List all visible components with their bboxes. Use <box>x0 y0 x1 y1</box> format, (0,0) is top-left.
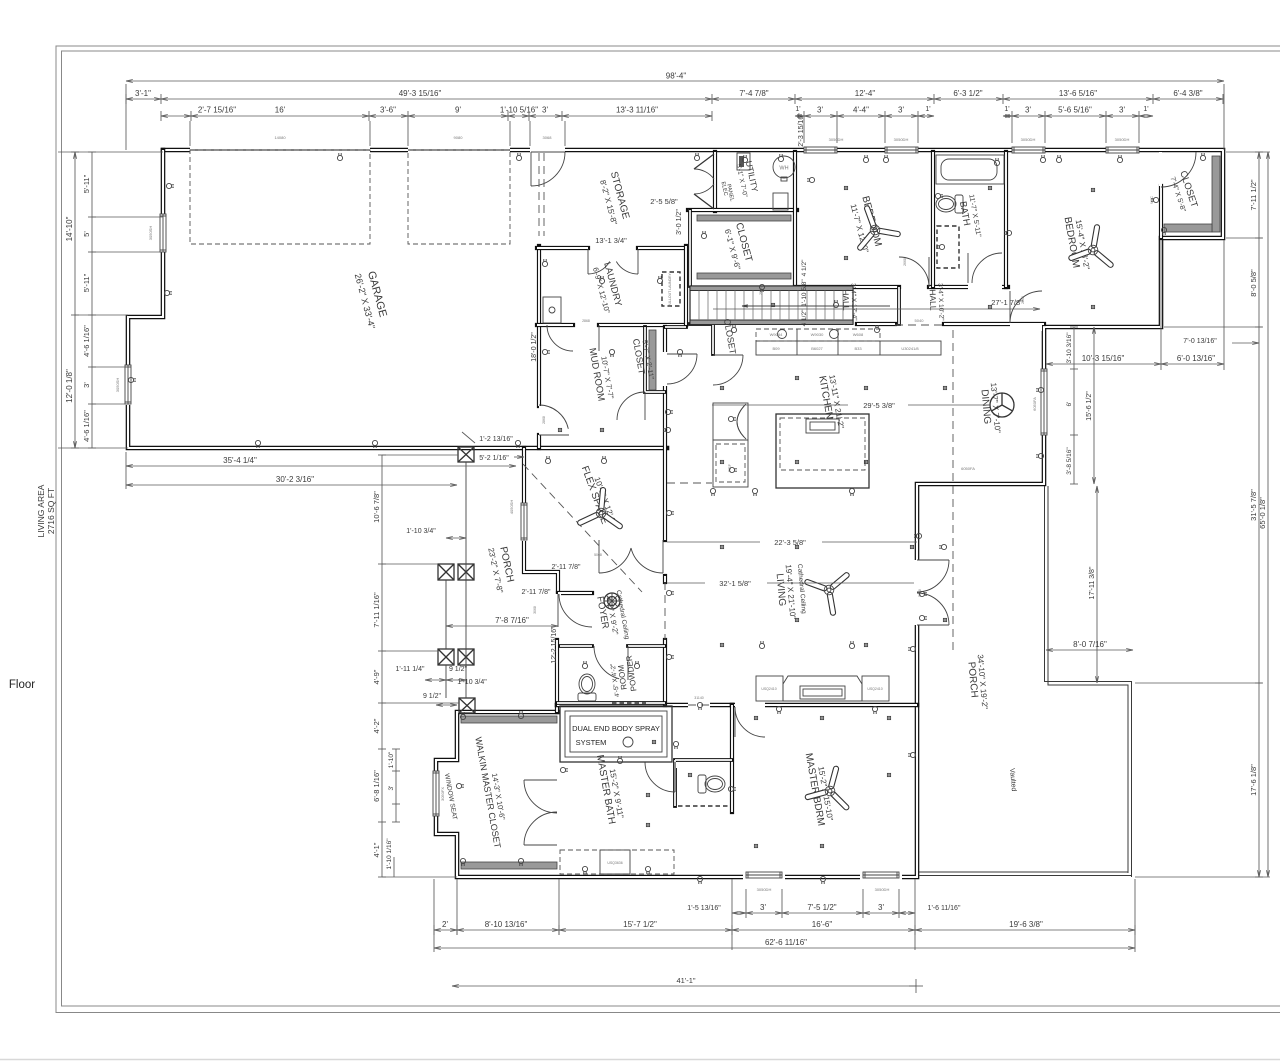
window 3050DH master b <box>863 872 899 878</box>
master closet door opening <box>553 780 561 845</box>
door kitchen to mud room <box>667 354 697 384</box>
nightstand left <box>756 676 783 701</box>
svg-text:3'-8 5/16": 3'-8 5/16" <box>1066 447 1073 475</box>
ceiling fixture squares <box>720 386 723 389</box>
garage west window opening <box>160 214 167 252</box>
bedroom3 window1 opening <box>1012 147 1045 154</box>
svg-text:62'-6 11/16": 62'-6 11/16" <box>765 938 807 947</box>
porch column B2 <box>458 564 474 580</box>
right porch edge <box>1045 486 1132 877</box>
powder east wall <box>663 640 667 705</box>
mud closet door <box>617 392 645 420</box>
svg-text:1': 1' <box>795 106 800 113</box>
mud closet / flex east wall <box>663 327 667 540</box>
garage door opening 1 <box>190 146 370 154</box>
svg-text:1'-5 13/16": 1'-5 13/16" <box>687 905 721 912</box>
svg-text:LIVING AREA: LIVING AREA <box>36 484 46 537</box>
master bdrm door <box>735 707 765 737</box>
bath vanity dashed <box>937 226 959 268</box>
svg-text:14'-10": 14'-10" <box>65 216 74 241</box>
svg-text:22'-3 5/8": 22'-3 5/8" <box>774 538 806 547</box>
laundry swing doors <box>588 262 610 275</box>
left lower dim chain <box>381 455 383 877</box>
svg-text:B09: B09 <box>772 346 780 351</box>
svg-text:10'-3 15/16": 10'-3 15/16" <box>1082 354 1125 363</box>
svg-text:13'-1 3/4": 13'-1 3/4" <box>595 236 627 245</box>
master closet double door b <box>524 812 557 845</box>
storage door opening <box>530 147 565 154</box>
svg-text:65'-0 1/8": 65'-0 1/8" <box>1258 497 1267 529</box>
dim 22-3 5/8 <box>667 541 760 543</box>
window seat window opening <box>432 771 440 816</box>
svg-text:3050FX: 3050FX <box>440 787 445 801</box>
elec panel <box>737 153 750 170</box>
living west wall upper <box>663 576 667 582</box>
wc door <box>645 762 675 792</box>
laundry south wall <box>537 323 686 327</box>
svg-text:15'-6 1/2": 15'-6 1/2" <box>1086 391 1093 421</box>
mud closet shelf <box>649 330 656 390</box>
closet door opening right <box>1159 152 1162 186</box>
svg-text:17'-6 1/8": 17'-6 1/8" <box>1249 764 1258 796</box>
bedroom3 closet shelf vertical <box>1212 156 1220 232</box>
porch column C1 <box>438 649 454 665</box>
svg-text:4 1/2": 4 1/2" <box>801 309 808 326</box>
mud closet walls <box>645 327 665 392</box>
bath toilet <box>936 195 963 213</box>
svg-text:31140: 31140 <box>694 696 704 700</box>
laundry sink <box>543 297 561 323</box>
svg-text:16'-6": 16'-6" <box>812 920 833 929</box>
svg-text:2668: 2668 <box>903 258 907 266</box>
master north wall <box>732 703 917 708</box>
bedroom2/hall south wall <box>795 285 1008 289</box>
bedroom2 window1 opening <box>804 147 837 154</box>
dashed wc opening <box>678 805 728 807</box>
svg-text:6'-3 1/2": 6'-3 1/2" <box>953 89 982 98</box>
master closet double door a <box>524 780 557 813</box>
svg-text:5': 5' <box>82 231 91 237</box>
garage door 9ft dashed <box>408 150 510 244</box>
laundry east / closet west wall <box>684 246 688 325</box>
window 3050DH bedroom2 b <box>885 147 918 153</box>
mudroom door <box>539 405 568 429</box>
svg-text:3': 3' <box>542 106 548 115</box>
svg-text:29'-5 3/8": 29'-5 3/8" <box>863 401 895 410</box>
svg-text:8'-0 7/16": 8'-0 7/16" <box>1073 640 1107 649</box>
svg-text:1'-10 5/16": 1'-10 5/16" <box>500 106 538 115</box>
powder west wall <box>555 640 559 712</box>
dim row3 top <box>161 115 191 117</box>
foyer entry stub wall <box>558 591 592 595</box>
svg-text:B6027: B6027 <box>811 346 823 351</box>
storage door <box>531 152 565 186</box>
svg-text:19'-6 3/8": 19'-6 3/8" <box>1009 920 1043 929</box>
svg-text:3050SH: 3050SH <box>148 226 153 241</box>
bedroom2 window2 opening <box>885 147 918 154</box>
svg-text:3': 3' <box>898 106 904 115</box>
left dims garage <box>74 152 76 448</box>
living porch double door a <box>917 560 949 592</box>
porch column C2 <box>458 649 474 665</box>
svg-text:30'-2 3/16": 30'-2 3/16" <box>276 475 314 484</box>
svg-text:3'-4" X 10'-2": 3'-4" X 10'-2" <box>936 283 944 321</box>
svg-text:6'-4 3/8": 6'-4 3/8" <box>1173 89 1202 98</box>
master south window1 opening <box>743 873 785 881</box>
svg-text:USQ2410: USQ2410 <box>761 687 776 691</box>
svg-text:3': 3' <box>388 786 395 791</box>
svg-text:1': 1' <box>1143 106 1148 113</box>
svg-text:2716 SQ FT: 2716 SQ FT <box>46 488 56 534</box>
dining chandelier <box>990 393 1014 417</box>
ceiling fan master <box>808 769 847 808</box>
WC walls <box>675 760 732 806</box>
garage door 16ft dashed <box>190 150 370 244</box>
svg-text:PULLOUT LAUNDRY: PULLOUT LAUNDRY <box>668 272 672 306</box>
right dim chain <box>1258 152 1260 877</box>
window 3050DH master a <box>746 872 782 878</box>
svg-text:17'-11 3/8": 17'-11 3/8" <box>1089 566 1096 599</box>
bath tub <box>936 155 1004 184</box>
dashed cased opening master <box>688 704 710 706</box>
svg-text:7'-8 7/16": 7'-8 7/16" <box>495 616 529 625</box>
svg-text:1'-10 1/16": 1'-10 1/16" <box>386 838 393 870</box>
master bdrm door opening <box>735 701 765 709</box>
dim 98-4 overall <box>126 80 1224 82</box>
svg-text:31'-5 7/8": 31'-5 7/8" <box>1249 489 1258 521</box>
window 3050DH bedroom2 a <box>804 147 837 153</box>
dashed ceiling break living <box>952 330 954 655</box>
wc toilet <box>698 775 725 793</box>
svg-text:3'-1": 3'-1" <box>135 89 151 98</box>
svg-text:U30241/8: U30241/8 <box>901 346 919 351</box>
svg-text:SYSTEM: SYSTEM <box>576 738 607 747</box>
bedroom2 closet shelves <box>697 215 791 221</box>
kitchen pantry cabinets <box>713 403 748 440</box>
svg-text:6050FA: 6050FA <box>1032 397 1037 411</box>
svg-text:41'-1": 41'-1" <box>676 976 695 985</box>
svg-text:10'-6 7/8": 10'-6 7/8" <box>372 491 381 523</box>
outlet symbols <box>337 153 342 161</box>
svg-text:3050DH: 3050DH <box>875 887 890 892</box>
svg-text:4'-6 1/16": 4'-6 1/16" <box>82 325 91 357</box>
laundry door <box>547 325 573 351</box>
svg-text:3'-6": 3'-6" <box>380 106 396 115</box>
svg-text:W608: W608 <box>853 332 864 337</box>
svg-text:5'-2 1/16": 5'-2 1/16" <box>479 455 509 462</box>
svg-text:2'-11 7/8": 2'-11 7/8" <box>552 564 582 571</box>
svg-text:49'-3 15/16": 49'-3 15/16" <box>399 89 442 98</box>
master west corridor wall <box>730 705 734 812</box>
powder south wall <box>557 701 665 705</box>
porch column D <box>459 698 475 713</box>
flex double door a <box>599 548 631 573</box>
master south window2 opening <box>860 873 902 881</box>
svg-text:5040: 5040 <box>915 318 925 323</box>
bottom row 2 <box>434 929 457 931</box>
foyer chandelier <box>604 593 620 609</box>
svg-text:9 1/2": 9 1/2" <box>423 693 442 700</box>
kitchen upper cabinets <box>756 329 880 341</box>
svg-text:3050DH: 3050DH <box>757 887 772 892</box>
svg-text:DUAL END BODY SPRAY: DUAL END BODY SPRAY <box>572 724 660 733</box>
svg-text:5'-11": 5'-11" <box>82 174 91 193</box>
window 3050DH bedroom3 a <box>1012 147 1045 153</box>
svg-text:3'-0 1/2": 3'-0 1/2" <box>676 209 683 235</box>
bedroom2 closet west wall <box>688 210 692 286</box>
svg-text:4'-9": 4'-9" <box>372 669 381 684</box>
svg-text:6050FA: 6050FA <box>961 466 975 471</box>
powder door <box>594 646 619 679</box>
master closet shelves top <box>461 716 557 723</box>
svg-text:12'-4": 12'-4" <box>855 89 876 98</box>
utility bifold door lower <box>694 194 714 209</box>
foyer entry door <box>559 594 592 627</box>
dim 29-5 3/8 kitchen <box>712 404 848 406</box>
dining window opening <box>1040 369 1048 435</box>
bath east wall <box>1004 152 1008 287</box>
svg-text:3': 3' <box>82 382 91 388</box>
flex double door b <box>631 548 663 573</box>
svg-text:18'-0 1/2": 18'-0 1/2" <box>531 332 538 362</box>
svg-text:5068: 5068 <box>594 553 602 557</box>
bedroom3 door opening <box>1010 323 1042 331</box>
laundry north wall <box>537 246 686 250</box>
svg-text:6'-0 13/16": 6'-0 13/16" <box>1177 354 1215 363</box>
svg-text:Floor: Floor <box>9 679 35 691</box>
svg-text:2'-11 7/8": 2'-11 7/8" <box>522 589 552 596</box>
dashed storage line <box>538 153 540 236</box>
master hall cased opening <box>688 701 710 709</box>
powder toilet <box>578 674 596 701</box>
bath door <box>972 253 1002 283</box>
svg-text:1'-2 13/16": 1'-2 13/16" <box>479 436 513 443</box>
svg-text:12'-0 1/8": 12'-0 1/8" <box>65 369 74 403</box>
svg-text:15'-7 1/2": 15'-7 1/2" <box>623 920 657 929</box>
svg-text:3068: 3068 <box>533 606 537 614</box>
svg-text:3068: 3068 <box>543 135 553 140</box>
water heater <box>773 156 795 178</box>
stairs <box>690 286 853 324</box>
bedroom3 closet door <box>1161 152 1196 187</box>
window 6050FA dining <box>1041 369 1047 435</box>
svg-text:4'-2": 4'-2" <box>372 718 381 733</box>
living porch double door b <box>917 593 949 625</box>
hall closet door <box>713 355 743 385</box>
svg-text:2868: 2868 <box>582 319 590 323</box>
svg-text:3050SH: 3050SH <box>115 378 120 393</box>
page bottom edge <box>0 1059 1280 1061</box>
svg-text:1': 1' <box>925 106 930 113</box>
svg-text:3': 3' <box>760 903 766 912</box>
svg-text:3': 3' <box>878 903 884 912</box>
svg-text:3'-10 3/16": 3'-10 3/16" <box>1066 332 1073 364</box>
dim 6-0 13/16 <box>1161 363 1224 365</box>
bedroom3 closet west wall <box>1159 186 1163 238</box>
living porch door opening <box>913 560 921 625</box>
nightstand right <box>862 676 889 701</box>
svg-text:8'-10 13/16": 8'-10 13/16" <box>485 920 528 929</box>
utility south / closet north wall <box>688 208 797 212</box>
window 4050SH flex <box>521 503 527 540</box>
ceiling fan flex <box>580 490 620 526</box>
ceiling fan bedroom2 <box>860 208 898 247</box>
bottom row 41-1 <box>452 985 916 987</box>
svg-text:4 1/2": 4 1/2" <box>801 259 808 276</box>
svg-text:3050DH: 3050DH <box>829 137 844 142</box>
svg-text:9080: 9080 <box>454 135 464 140</box>
svg-text:3'-4" X 17'-4": 3'-4" X 17'-4" <box>849 283 857 321</box>
bath north wall <box>557 703 732 708</box>
svg-text:7'-0 13/16": 7'-0 13/16" <box>1183 338 1217 345</box>
svg-text:1'-10 5/8": 1'-10 5/8" <box>801 279 808 307</box>
hall west wall <box>897 287 901 324</box>
right porch bottom edge <box>919 872 1132 876</box>
svg-text:4'-6 1/16": 4'-6 1/16" <box>82 410 91 442</box>
svg-text:WH: WH <box>779 166 788 172</box>
bed console <box>783 676 862 701</box>
svg-text:4050SH: 4050SH <box>509 500 514 515</box>
svg-text:1'-11 1/4": 1'-11 1/4" <box>396 666 426 673</box>
svg-text:2868: 2868 <box>542 416 546 424</box>
svg-text:9 1/2": 9 1/2" <box>449 666 468 673</box>
svg-text:1'-10 3/4": 1'-10 3/4" <box>406 528 436 535</box>
exterior walls main loop <box>163 150 1223 877</box>
kitchen base cabinets <box>756 341 941 355</box>
svg-text:3': 3' <box>817 106 823 115</box>
svg-text:4'-1": 4'-1" <box>372 842 381 857</box>
dashed cased opening kitchen <box>667 482 712 484</box>
dim row2 top <box>126 98 161 100</box>
svg-text:2'-5 5/8": 2'-5 5/8" <box>650 197 678 206</box>
window 3050FX window seat <box>433 771 439 816</box>
wc door opening <box>676 762 704 768</box>
dim 7-8 7/16 <box>446 625 558 627</box>
dim 10-3 15/16 <box>1046 363 1161 365</box>
kitchen island <box>776 414 869 488</box>
dim 27-1 7/8 <box>713 308 1040 310</box>
flex west window opening <box>520 503 528 541</box>
right porch dims <box>1096 486 1098 683</box>
mudroom door opening <box>539 406 545 435</box>
hall closet (understair) walls <box>690 324 713 354</box>
svg-text:W9030: W9030 <box>811 332 824 337</box>
master tub <box>560 706 672 762</box>
mud room east wall segments <box>665 325 686 329</box>
svg-text:35'-4 1/4": 35'-4 1/4" <box>223 456 257 465</box>
master closet shelves bottom <box>461 862 557 869</box>
svg-text:32'-1 5/8": 32'-1 5/8" <box>719 579 751 588</box>
dining dim chain <box>1073 327 1075 484</box>
powder north wall <box>560 644 665 648</box>
svg-text:5'-6 5/16": 5'-6 5/16" <box>1058 106 1092 115</box>
svg-text:B33: B33 <box>854 346 862 351</box>
bedroom2 west wall <box>793 152 797 287</box>
svg-text:3050DH: 3050DH <box>1115 137 1130 142</box>
porch column B1 <box>438 564 454 580</box>
svg-text:3050DH: 3050DH <box>894 137 909 142</box>
window 3050DH bedroom3 b <box>1106 147 1139 153</box>
garage west wall and bottom wall <box>128 150 667 448</box>
storage/laundry west wall <box>537 246 541 406</box>
porch edge lines <box>465 462 467 698</box>
svg-text:27'-1 7/8": 27'-1 7/8" <box>991 298 1023 307</box>
svg-text:98'-4": 98'-4" <box>666 72 687 81</box>
master vanity dashed <box>560 850 674 874</box>
svg-text:1'-10": 1'-10" <box>388 751 395 768</box>
svg-text:13'-3 11/16": 13'-3 11/16" <box>616 106 658 115</box>
window 3050SH garage upper <box>160 214 166 252</box>
bottom window dims master <box>732 912 746 914</box>
garage bottom dims <box>126 465 516 467</box>
svg-text:7'-4 7/8": 7'-4 7/8" <box>739 89 768 98</box>
svg-text:6'-8 1/16": 6'-8 1/16" <box>372 770 381 802</box>
dashed living west <box>664 582 666 640</box>
utility west wall <box>713 152 717 211</box>
dashed powder vanity <box>612 702 646 704</box>
garage lower west window opening <box>124 365 132 405</box>
svg-text:7'-11 1/2": 7'-11 1/2" <box>1249 179 1258 210</box>
svg-text:1'-10 3/4": 1'-10 3/4" <box>457 679 487 686</box>
bedroom3 door <box>1010 291 1042 323</box>
svg-text:USQ2410: USQ2410 <box>867 687 882 691</box>
svg-text:2'-7 15/16": 2'-7 15/16" <box>198 106 236 115</box>
svg-text:3': 3' <box>1119 106 1125 115</box>
bedroom3 window2 opening <box>1106 147 1139 154</box>
svg-text:13'-6 5/16": 13'-6 5/16" <box>1059 89 1097 98</box>
dashed line flex diagonal <box>523 464 642 592</box>
bedroom2 door <box>899 257 929 287</box>
dim 32-1 5/8 living <box>667 582 705 584</box>
svg-text:12'-2 15/16": 12'-2 15/16" <box>551 626 558 664</box>
svg-text:14080: 14080 <box>274 135 286 140</box>
window 3050SH garage lower <box>125 365 131 404</box>
svg-text:16': 16' <box>275 106 286 115</box>
svg-text:9': 9' <box>455 106 461 115</box>
svg-text:2': 2' <box>442 920 448 929</box>
svg-text:W9084: W9084 <box>770 332 783 337</box>
porch column A <box>458 447 474 462</box>
dashed cased opening hall-dining <box>895 324 944 326</box>
bath door opening <box>968 283 1002 291</box>
svg-text:USQ3636: USQ3636 <box>607 861 622 865</box>
hall south wall / kitchen north <box>857 322 1044 326</box>
svg-text:8'-0 5/8": 8'-0 5/8" <box>1249 269 1258 297</box>
utility bifold door upper <box>694 154 714 169</box>
foyer door opening <box>553 594 561 627</box>
mud east door opening <box>662 352 668 386</box>
flex space west wall + foyer jog <box>524 448 558 594</box>
svg-text:3': 3' <box>1025 106 1031 115</box>
garage door opening 2 <box>408 146 510 154</box>
svg-text:3050DH: 3050DH <box>1021 137 1036 142</box>
ceiling fan living <box>807 575 846 613</box>
bath west wall <box>931 152 935 287</box>
svg-text:5'-11": 5'-11" <box>82 273 91 292</box>
svg-text:1'-6 11/16": 1'-6 11/16" <box>928 905 961 912</box>
mudroom west wall lower stub <box>537 435 541 448</box>
svg-text:4'-4": 4'-4" <box>853 106 869 115</box>
utility furnace rect <box>773 193 788 210</box>
svg-text:7'-5 1/2": 7'-5 1/2" <box>807 903 836 912</box>
svg-text:6': 6' <box>1066 402 1073 407</box>
pullout laundry dashed <box>662 272 680 306</box>
svg-text:1': 1' <box>1004 106 1009 113</box>
ceiling fan bedroom3 <box>1071 227 1110 264</box>
bottom row 62-6 <box>434 947 1135 949</box>
svg-text:7'-11 1/16": 7'-11 1/16" <box>372 592 381 628</box>
